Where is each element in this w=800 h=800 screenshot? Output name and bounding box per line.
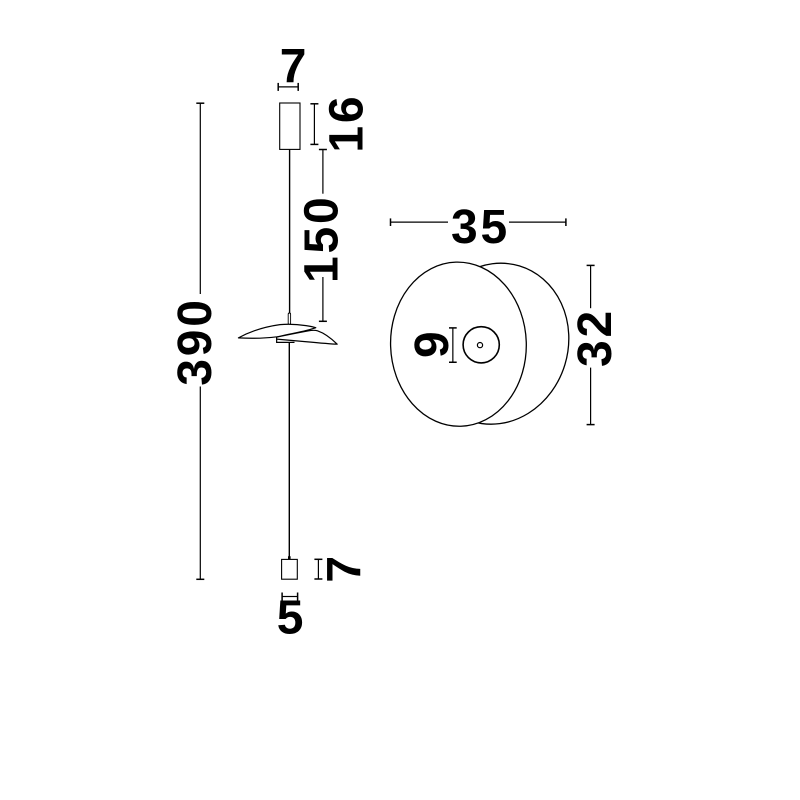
dim 150 ticks	[319, 150, 327, 322]
svg-text:150: 150	[296, 195, 349, 283]
dim 7 top ticks	[278, 83, 298, 91]
dim line 35	[391, 221, 566, 223]
hub dot	[477, 343, 482, 348]
canopy cylinder	[280, 103, 300, 149]
svg-text:7: 7	[319, 553, 372, 583]
dim line 16	[313, 104, 315, 145]
svg-text:16: 16	[321, 94, 374, 153]
cord lower	[288, 343, 290, 558]
cord stem loop	[288, 313, 290, 325]
dim line 7 top	[278, 86, 298, 88]
dim line 9	[452, 328, 454, 362]
dim 390 ticks	[196, 103, 204, 579]
dim line 390 vertical	[199, 103, 201, 579]
dim 7 bottom ticks	[314, 559, 322, 579]
svg-text:35: 35	[451, 201, 510, 254]
dim line 32	[590, 265, 592, 424]
svg-text:7: 7	[280, 41, 310, 94]
petal upper	[238, 324, 315, 338]
hub circle	[463, 327, 499, 363]
svg-text:9: 9	[406, 329, 459, 359]
dim line 7 bottom	[317, 559, 319, 579]
top view: front ellipse	[388, 260, 529, 428]
dim 32 ticks	[587, 265, 595, 424]
cord upper	[289, 149, 291, 313]
dim 16 ticks	[310, 104, 318, 145]
top view: back ellipse	[404, 245, 589, 442]
svg-text:390: 390	[169, 297, 222, 386]
svg-text:5: 5	[277, 592, 307, 645]
svg-text:32: 32	[569, 308, 622, 367]
dim 9 ticks	[449, 328, 457, 362]
dim 35 ticks	[391, 218, 566, 226]
dim line 5 bottom	[282, 596, 298, 598]
petal lower	[277, 330, 338, 344]
dim line 150	[322, 150, 324, 322]
weight cylinder	[282, 559, 298, 579]
shade step	[277, 337, 295, 342]
cord end blob	[288, 556, 291, 560]
dim 5 ticks	[282, 593, 298, 601]
